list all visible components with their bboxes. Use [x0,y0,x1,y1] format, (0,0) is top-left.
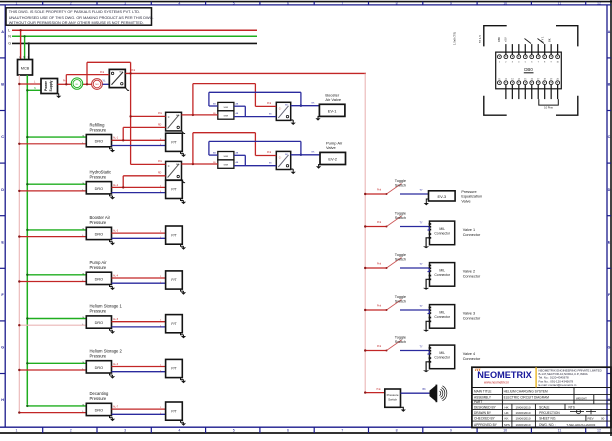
svg-text:SCALE: SCALE [539,405,549,409]
svg-text:Connector: Connector [463,233,481,237]
svg-text:MIL: MIL [439,311,445,315]
svg-text:SSR: SSR [224,107,229,109]
svg-text:7: 7 [341,429,343,433]
svg-text:N: N [8,35,11,39]
svg-text:Connector: Connector [463,317,481,321]
svg-text:Pressure: Pressure [90,396,107,401]
svg-text:Valve 3: Valve 3 [463,312,475,316]
svg-text:TY 1: TY 1 [541,36,545,42]
svg-text:AL-4: AL-4 [113,274,119,277]
svg-text:10: 10 [503,429,507,433]
svg-text:Connector: Connector [434,273,451,277]
svg-text:Valve 4: Valve 4 [463,352,475,356]
svg-text:8: 8 [396,429,398,433]
svg-text:NO: NO [285,154,289,156]
svg-text:AL-3: AL-3 [113,230,119,233]
svg-text:WEIGHT:: WEIGHT: [576,397,587,401]
svg-text:KK: KK [505,417,509,421]
svg-text:Switch: Switch [395,299,406,303]
svg-text:6: 6 [287,1,289,5]
svg-text:Valve: Valve [326,145,336,150]
svg-text:Power: Power [44,80,48,91]
svg-text:G: G [1,346,4,350]
svg-text:Toggle: Toggle [395,211,406,215]
svg-text:2: 2 [70,429,72,433]
svg-text:TY: TY [420,305,423,308]
svg-text:Toggle: Toggle [395,179,406,183]
svg-text:Pressure: Pressure [461,190,476,194]
svg-text:DRAWN BY: DRAWN BY [474,411,492,415]
svg-text:Connector: Connector [434,315,451,319]
svg-text:HELIUM CHARGING SYSTEM: HELIUM CHARGING SYSTEM [504,390,548,394]
svg-text:D: D [1,188,4,192]
svg-text:Equalization: Equalization [461,195,482,199]
svg-text:AL-7: AL-7 [113,406,119,409]
svg-text:C-: C- [279,108,282,111]
svg-text:P/T: P/T [171,141,176,145]
svg-text:Switch: Switch [395,257,406,261]
svg-text:EV-3: EV-3 [437,194,446,199]
svg-text:Pressure: Pressure [90,127,107,132]
svg-text:4: 4 [178,429,180,433]
svg-text:Supply: Supply [49,80,53,91]
svg-text:Switch: Switch [395,216,406,220]
svg-text:Switch: Switch [388,398,397,402]
svg-text:DB0: DB0 [524,67,533,72]
svg-text:HK: HK [505,405,509,409]
svg-text:P/T: P/T [171,188,176,192]
svg-text:TY: TY [420,345,423,348]
svg-text:THIS DWG. IS SOLE PROPERTY OF: THIS DWG. IS SOLE PROPERTY OF PASKALS FL… [9,10,140,14]
svg-text:ELECTRIC CIRCUIT DIAGRAM: ELECTRIC CIRCUIT DIAGRAM [504,396,550,400]
svg-text:Valve: Valve [461,199,470,203]
svg-text:PART: PART [474,400,482,404]
svg-text:3: 3 [124,429,126,433]
svg-text:ASSEMBLY: ASSEMBLY [474,396,492,400]
svg-text:11: 11 [558,1,562,5]
svg-text:UNAUTHORISED USE OF THIS DWG.: UNAUTHORISED USE OF THIS DWG. OR MAKING … [9,16,154,20]
svg-text:1.5x9 (TS): 1.5x9 (TS) [453,32,457,45]
svg-text:AL-1: AL-1 [113,137,119,140]
svg-text:12: 12 [597,429,601,433]
svg-text:1: 1 [16,1,18,5]
svg-text:D: D [608,188,611,192]
svg-text:DRO: DRO [95,366,103,370]
svg-text:REV: REV [588,417,594,421]
svg-text:MAIN TITLE: MAIN TITLE [474,390,491,394]
svg-text:10 Pins: 10 Pins [544,105,553,109]
svg-text:CHECKED BY: CHECKED BY [474,417,496,421]
svg-text:19/06/2010: 19/06/2010 [516,405,531,409]
svg-text:5: 5 [233,1,235,5]
svg-text:+5V: +5V [504,37,508,42]
svg-text:00: 00 [601,417,605,421]
svg-text:12: 12 [597,1,601,5]
svg-text:L: L [8,29,10,33]
svg-text:7: 7 [341,1,343,5]
svg-text:NO: NO [176,164,180,166]
svg-text:2: 2 [70,1,72,5]
svg-text:6: 6 [287,429,289,433]
svg-text:SSR: SSR [224,156,229,158]
svg-text:P/T: P/T [171,322,176,326]
svg-text:N: N [23,55,25,59]
svg-text:Pressure: Pressure [90,220,107,225]
svg-text:A: A [1,30,4,34]
svg-text:10: 10 [503,1,507,5]
svg-text:AL-6: AL-6 [113,363,119,366]
svg-text:Switch: Switch [395,340,406,344]
svg-text:SHEET NO.: SHEET NO. [539,417,556,421]
svg-text:Pressure: Pressure [387,393,399,397]
svg-text:NO: NO [120,72,124,74]
svg-text:P/T: P/T [171,233,176,237]
svg-text:C: C [168,116,170,119]
svg-text:BK: BK [423,388,427,391]
svg-text:RD: RD [158,124,162,126]
svg-text:DRO: DRO [95,187,103,191]
svg-text:DRO: DRO [95,409,103,413]
svg-text:SSR: SSR [224,115,229,117]
svg-text:SPS: SPS [504,423,510,427]
svg-text:MIL: MIL [439,227,445,231]
svg-text:NO: NO [95,84,99,86]
svg-text:19/06/2010: 19/06/2010 [516,417,531,421]
svg-text:4: 4 [178,1,180,5]
svg-text:MIL: MIL [439,269,445,273]
svg-text:Toggle: Toggle [395,253,406,257]
svg-text:E-mail: contact@neometrix.in: E-mail: contact@neometrix.in [539,383,577,387]
svg-text:T-NEI-HDHS-HA0003: T-NEI-HDHS-HA0003 [566,423,595,427]
svg-text:Valve 2: Valve 2 [463,270,475,274]
svg-text:DWG. NO. :: DWG. NO. : [539,423,556,427]
svg-text:P/T: P/T [171,278,176,282]
svg-text:WITHOUT OUR PERMISSION OR ANY: WITHOUT OUR PERMISSION OR ANY OTHER MISU… [9,21,144,25]
svg-text:G: G [8,42,11,46]
svg-text:APPROVED BY: APPROVED BY [474,423,498,427]
svg-text:DESIGNED BY: DESIGNED BY [474,405,497,409]
svg-text:DRO: DRO [95,140,103,144]
svg-text:P/T: P/T [171,409,176,413]
svg-text:Pressure: Pressure [90,174,107,179]
svg-text:EV-2: EV-2 [328,156,337,161]
svg-text:NEOMETRIX: NEOMETRIX [477,370,532,380]
svg-text:NTS: NTS [569,405,575,409]
svg-text:MIL: MIL [439,351,445,355]
svg-text:DRO: DRO [95,321,103,325]
svg-text:PROJECTION: PROJECTION [539,411,560,415]
svg-text:Valve 1: Valve 1 [463,228,475,232]
svg-text:DRO: DRO [95,277,103,281]
svg-text:RD: RD [158,173,162,175]
svg-text:Connector: Connector [434,355,451,359]
svg-text:SSR: SSR [224,165,229,167]
svg-text:DRO: DRO [95,233,103,237]
svg-text:Switch: Switch [395,183,406,187]
svg-text:5T 1.5: 5T 1.5 [478,35,482,43]
svg-text:NO: NO [285,105,289,107]
svg-text:8: 8 [396,1,398,5]
svg-text:B: B [1,83,4,87]
svg-text:Connector: Connector [434,231,451,235]
svg-text:Air Valve: Air Valve [325,97,341,102]
svg-text:HK: HK [505,411,509,415]
svg-text:Pressure: Pressure [90,354,107,359]
svg-text:B: B [608,83,611,87]
svg-text:BK: BK [548,38,552,42]
svg-text:AL-5: AL-5 [113,318,119,321]
svg-text:TY: TY [420,221,423,224]
svg-text:Toggle: Toggle [395,295,406,299]
svg-text:Connector: Connector [463,357,481,361]
svg-text:N: N [34,87,36,90]
svg-text:A: A [608,30,611,34]
svg-text:TY: TY [420,189,423,192]
svg-text:Pressure: Pressure [90,309,107,314]
svg-text:9: 9 [450,429,452,433]
svg-text:G: G [28,55,30,59]
svg-text:MCB: MCB [21,67,30,71]
svg-text:AL-2: AL-2 [113,184,119,187]
svg-text:www.neometrix.in: www.neometrix.in [484,381,509,385]
svg-text:EV-1: EV-1 [328,108,337,113]
svg-text:NO: NO [176,115,180,117]
svg-text:C-: C- [279,157,282,160]
svg-text:C: C [608,135,611,139]
svg-text:Connector: Connector [463,275,481,279]
svg-text:TY: TY [420,263,423,266]
svg-text:1: 1 [16,429,18,433]
svg-text:5: 5 [233,429,235,433]
svg-text:DB0: DB0 [497,36,501,42]
svg-text:9: 9 [450,1,452,5]
svg-text:P/T: P/T [171,367,176,371]
svg-text:3: 3 [124,1,126,5]
svg-text:E: E [608,240,611,244]
svg-text:19/06/2010: 19/06/2010 [516,411,531,415]
svg-text:C: C [168,165,170,168]
svg-text:H: H [1,398,4,402]
svg-text:Pressure: Pressure [90,265,107,270]
svg-text:G: G [608,346,611,350]
svg-text:Toggle: Toggle [395,335,406,339]
svg-text:11: 11 [558,429,562,433]
svg-text:C: C [1,135,4,139]
svg-text:19/06/2010: 19/06/2010 [516,423,531,427]
